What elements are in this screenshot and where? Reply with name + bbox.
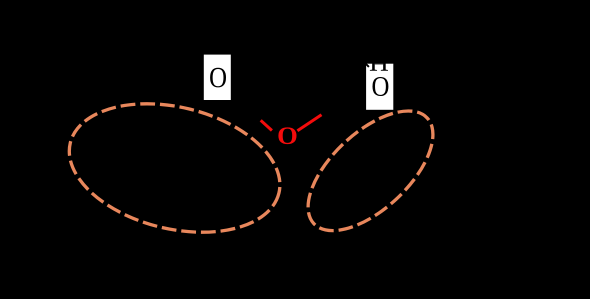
atom label box O-H (hydroxyl) [366,64,393,110]
atom label box O (carbonyl oxygen) [204,55,231,100]
atom label O (hydroxyl oxygen) [372,77,388,96]
dashed ellipse (left group annotation) [56,84,293,252]
bond stub into O-H box corner [364,62,369,67]
dashed ellipse (right group annotation) [288,90,454,252]
crossbar sliver of H at box top [375,63,383,66]
atom label O (carbonyl oxygen) [210,68,226,88]
wire: red half-bond from carbonyl carbon to ester O [261,120,272,130]
atom label O (ester oxygen, highlighted red) [278,127,296,144]
atom label H (hydroxyl hydrogen, bottom visible over white box) [370,52,388,71]
wire: red half-bond from ester O to right carbon [297,115,321,131]
